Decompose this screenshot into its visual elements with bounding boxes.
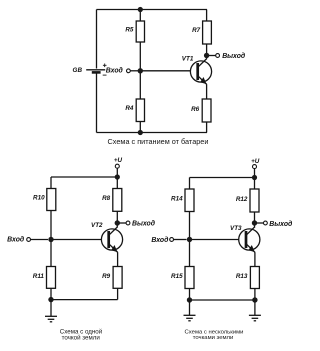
wire: collector column R7 side: [206, 10, 208, 59]
wire: output terminal link: [120, 222, 127, 224]
svg-text:R13: R13: [236, 273, 248, 280]
svg-text:+U: +U: [114, 157, 123, 164]
svg-text:Вход: Вход: [151, 236, 169, 244]
battery minus sign: [103, 74, 107, 76]
wire: base lead to VT2: [51, 239, 109, 241]
input terminal circle: [170, 238, 174, 242]
resistor R14: [185, 189, 194, 212]
transistor VT3: [239, 227, 260, 253]
wire: top rail: [51, 176, 117, 178]
node: collector / output junction: [204, 53, 209, 58]
wire: output terminal link: [209, 55, 216, 57]
resistor R7: [203, 21, 212, 44]
node: input / base junction: [48, 237, 53, 242]
resistor R15: [185, 267, 194, 289]
svg-text:R6: R6: [191, 106, 200, 113]
svg-text:Выход: Выход: [132, 220, 156, 228]
wire: input terminal link: [130, 70, 138, 72]
input terminal circle: [27, 238, 31, 242]
resistor R12: [250, 189, 259, 212]
wire: left column: [50, 177, 52, 300]
wire: emitter column to R9: [117, 252, 119, 299]
svg-text:точкой земли: точкой земли: [62, 335, 101, 342]
svg-text:R9: R9: [102, 273, 111, 280]
output terminal circle: [216, 54, 220, 58]
resistor R5: [136, 21, 144, 42]
node: top of divider: [138, 7, 143, 12]
wire: left rail lower (from battery): [96, 73, 98, 133]
svg-text:Схема с питанием от батареи: Схема с питанием от батареи: [108, 137, 209, 146]
wire: right column upper: [254, 178, 256, 227]
node: right ground junction: [252, 297, 257, 302]
wire: divider column R5/R4: [139, 10, 141, 133]
node: collector / output junction: [115, 220, 120, 225]
resistor R10: [47, 189, 56, 211]
wire: base lead to VT3: [190, 239, 247, 241]
svg-text:VT2: VT2: [91, 222, 103, 229]
wire: input terminal link: [31, 239, 49, 241]
svg-text:R15: R15: [171, 273, 183, 280]
transistor VT2: [101, 227, 122, 253]
resistor R8: [113, 189, 122, 212]
svg-text:R7: R7: [192, 27, 201, 34]
svg-text:R4: R4: [125, 105, 134, 112]
wire: top rail: [190, 177, 255, 179]
wire: left rail upper (to battery): [96, 10, 98, 69]
wire: input terminal link: [174, 239, 187, 241]
svg-text:Выход: Выход: [269, 220, 293, 228]
wire: top rail: [97, 9, 208, 11]
battery GB short plate (-): [92, 71, 101, 74]
output terminal circle: [126, 221, 130, 225]
svg-text:Выход: Выход: [222, 52, 246, 60]
node: +U tee: [252, 175, 257, 180]
wire: +U drop: [254, 169, 256, 178]
node: input / base junction: [187, 237, 192, 242]
wire: base lead to VT1: [140, 70, 197, 72]
wire: right column upper: [116, 177, 118, 227]
node: ground junction: [48, 297, 53, 302]
svg-text:Вход: Вход: [106, 67, 124, 75]
ground symbol left: [184, 300, 196, 321]
node: input / base junction: [138, 68, 143, 73]
svg-text:R11: R11: [33, 273, 45, 280]
wire: bottom link: [190, 299, 255, 301]
svg-text:R8: R8: [102, 195, 111, 202]
svg-text:R10: R10: [33, 195, 45, 202]
battery plus sign: [103, 64, 107, 68]
wire: +U drop: [116, 168, 118, 177]
node: left ground junction: [187, 297, 192, 302]
input terminal circle: [126, 69, 130, 73]
svg-text:R14: R14: [171, 196, 183, 203]
wire: bottom rail: [97, 132, 208, 134]
wire: output terminal link: [257, 222, 264, 224]
node: bottom of divider: [138, 130, 143, 135]
+U terminal circle: [253, 165, 257, 169]
svg-text:точками земли: точками земли: [193, 335, 234, 341]
svg-text:GB: GB: [73, 67, 83, 74]
resistor R13: [250, 267, 259, 289]
svg-text:VT1: VT1: [182, 56, 194, 63]
svg-text:R5: R5: [125, 26, 134, 33]
svg-text:R12: R12: [236, 196, 248, 203]
resistor R9: [113, 267, 122, 289]
wire: bottom link: [51, 299, 118, 301]
svg-text:Вход: Вход: [7, 235, 25, 243]
svg-text:VT3: VT3: [230, 225, 242, 232]
node: collector / output junction: [252, 220, 257, 225]
wire: left column: [189, 178, 191, 301]
resistor R4: [136, 99, 144, 122]
transistor VT1: [190, 59, 211, 85]
output terminal circle: [264, 221, 268, 225]
+U terminal circle: [115, 164, 119, 168]
ground symbol right: [249, 300, 261, 321]
resistor R11: [47, 267, 56, 289]
wire: emitter column to R13: [254, 252, 256, 300]
ground symbol: [45, 300, 57, 322]
svg-text:+U: +U: [251, 158, 260, 165]
wire: emitter column to R6: [206, 84, 208, 132]
resistor R6: [202, 99, 211, 122]
node: +U tee: [115, 174, 120, 179]
battery GB long plate (+): [86, 69, 105, 71]
